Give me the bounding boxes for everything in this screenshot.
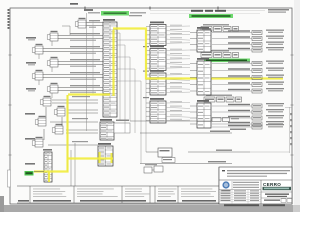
svg-text:CERRO: CERRO [263, 182, 281, 187]
